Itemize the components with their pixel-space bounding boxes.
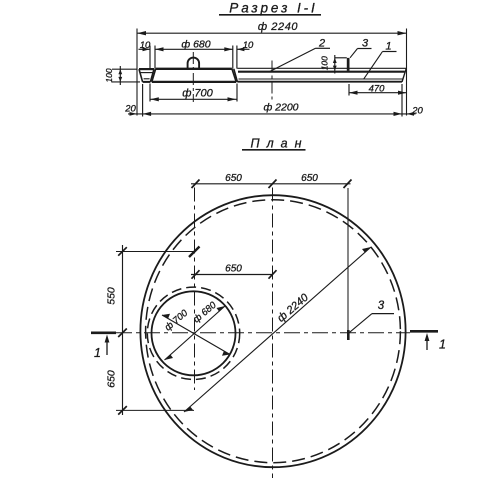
svg-text:100: 100 — [320, 56, 330, 70]
section title "Разрез I-I" — [219, 1, 321, 16]
svg-text:ф 680: ф 680 — [181, 38, 210, 50]
leader label 3 — [350, 38, 372, 58]
extension lines of hole edges — [150, 46, 237, 69]
svg-text:ф 2200: ф 2200 — [263, 101, 298, 113]
slab left rim (section cut) — [139, 69, 154, 82]
dimension 100 slab thickness left — [104, 66, 140, 85]
leader label 1 — [364, 41, 397, 80]
lifting loop on cover (section) — [188, 58, 200, 69]
opening circle phi700 dashed (plan) — [147, 287, 239, 379]
section trace right with arrow 1 — [410, 331, 446, 351]
svg-text:20: 20 — [411, 106, 423, 117]
hole centre line vertical (plan) — [194, 188, 196, 391]
svg-text:ф 700: ф 700 — [182, 88, 213, 100]
loop tick upper (plan) — [189, 247, 200, 258]
loop element 3 (section) — [347, 58, 350, 71]
hole centre line (section) — [192, 52, 194, 102]
svg-text:550: 550 — [106, 287, 118, 305]
svg-text:650: 650 — [225, 173, 242, 184]
extension line upper (plan left) — [116, 251, 194, 253]
dimension 20 right — [407, 106, 424, 117]
svg-text:ф 680: ф 680 — [191, 299, 219, 325]
extension line to loop (plan) — [347, 188, 349, 331]
extension line left x137 — [136, 29, 138, 116]
dimension phi700 — [150, 84, 237, 102]
svg-text:650: 650 — [301, 173, 318, 184]
extension line right x406.5 — [406, 29, 408, 116]
svg-text:3: 3 — [362, 38, 369, 50]
svg-text:1: 1 — [94, 346, 101, 360]
dimension 650 hole offset (plan middle) — [191, 264, 277, 279]
dimension 10 left — [139, 40, 151, 51]
svg-text:20: 20 — [124, 103, 136, 114]
dimension phi2200 — [128, 84, 416, 117]
slab outer circle phi2240 (plan) — [140, 195, 405, 467]
loop mark (plan) item 3 — [347, 330, 350, 340]
svg-text:ф 2240: ф 2240 — [275, 291, 311, 325]
dimension 470 — [349, 84, 407, 96]
dimension 10 right — [237, 40, 254, 51]
dimension phi700 of opening (plan) — [162, 307, 230, 355]
dimension phi680 — [155, 38, 233, 51]
dimension 100 of loop — [320, 55, 347, 74]
svg-text:ф 2240: ф 2240 — [258, 21, 299, 33]
plan title "План" — [242, 137, 308, 151]
leader label 2 — [269, 38, 330, 72]
svg-text:3: 3 — [378, 300, 385, 312]
extension line lower (plan left) — [116, 409, 194, 411]
svg-text:650: 650 — [106, 370, 118, 388]
dimension 20 left — [124, 103, 137, 116]
svg-text:650: 650 — [225, 264, 242, 275]
svg-text:План: План — [251, 137, 309, 151]
slab centre line (section) — [271, 61, 273, 101]
cover slab in opening (section cut) — [152, 69, 236, 82]
horizontal centre line (plan) — [116, 332, 410, 334]
leader label 3 (plan) — [349, 300, 394, 333]
slab bottom edge circle phi2200 dashed (plan) — [146, 200, 401, 463]
svg-text:100: 100 — [104, 68, 114, 82]
svg-text:1: 1 — [439, 338, 446, 352]
dimension phi2240 top — [137, 21, 407, 35]
svg-text:1: 1 — [385, 41, 391, 53]
left vertical dimensions 550 650 (plan) — [106, 245, 127, 415]
main slab right part (section) — [234, 68, 406, 82]
dimension phi680 of opening (plan) — [165, 299, 226, 360]
svg-text:Разрез I-I: Разрез I-I — [229, 1, 317, 16]
opening circle phi680 (plan) — [152, 291, 236, 375]
svg-text:470: 470 — [369, 84, 386, 95]
section trace left with arrow 1 — [91, 333, 116, 360]
slab centre line vertical (plan) — [272, 188, 274, 479]
diagonal dimension phi2240 (plan) — [184, 247, 371, 412]
plan top dimension 650 650 — [191, 173, 352, 188]
